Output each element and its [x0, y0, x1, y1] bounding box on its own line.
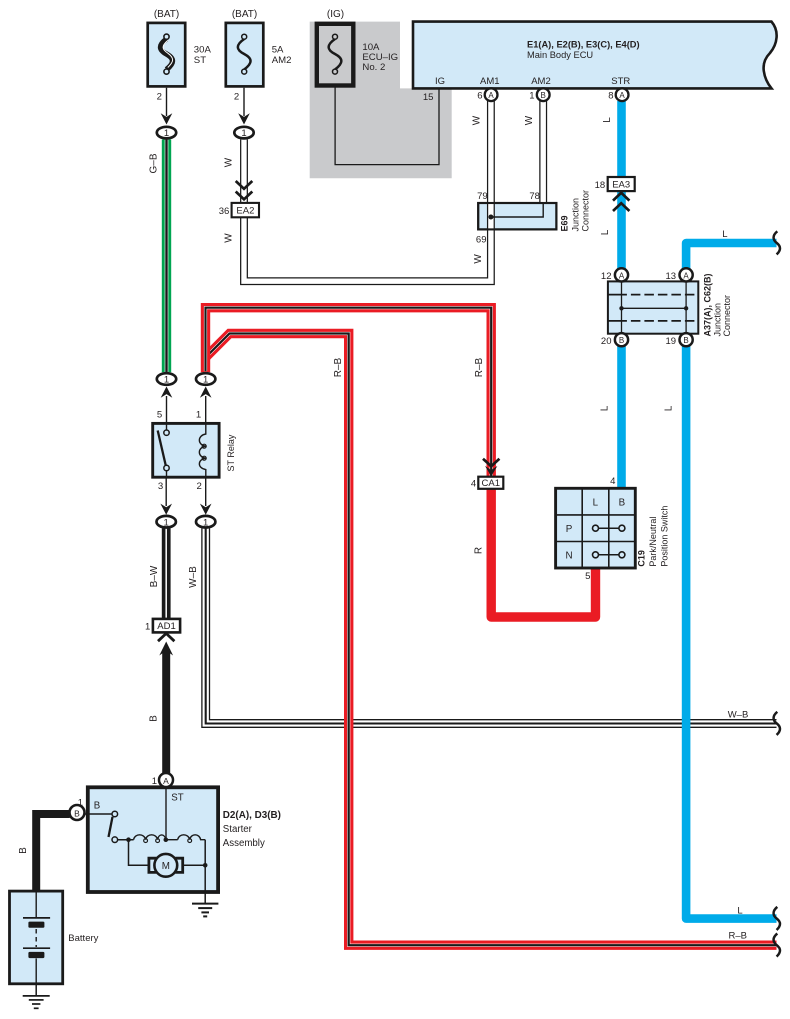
svg-text:A: A [163, 776, 169, 786]
label L A37 to switch [600, 405, 611, 411]
svg-text:EA2: EA2 [236, 206, 254, 217]
svg-text:69: 69 [476, 235, 487, 246]
svg-text:ST: ST [171, 792, 183, 803]
svg-text:AM1: AM1 [480, 76, 500, 87]
svg-text:L: L [664, 405, 675, 411]
svg-text:E1(A), E2(B), E3(C), E4(D): E1(A), E2(B), E3(C), E4(D) [527, 39, 640, 49]
svg-text:A: A [683, 271, 689, 280]
switch cell letters [565, 497, 625, 561]
EA2 connector [219, 181, 259, 217]
ground below battery [23, 984, 50, 1009]
wire R-B branch down page to right edge [206, 334, 777, 946]
svg-text:A: A [619, 271, 625, 280]
wire W from EA2 to E69 and up to ECU AM1 [244, 101, 491, 281]
label W below EA2 [223, 233, 234, 243]
label L bottom right [737, 905, 742, 916]
svg-text:1: 1 [164, 375, 169, 386]
A37/C62 junction connector box [608, 281, 698, 333]
thin line fuse2 to connector [243, 88, 245, 116]
svg-text:W–B: W–B [728, 710, 749, 721]
svg-text:ST Relay: ST Relay [226, 434, 236, 471]
svg-text:1: 1 [529, 91, 534, 102]
label W near E69 bottom [473, 254, 484, 264]
A37 pin 12 A [601, 268, 628, 282]
svg-text:12: 12 [601, 271, 612, 282]
svg-text:15: 15 [423, 92, 434, 103]
svg-text:Main Body ECU: Main Body ECU [527, 50, 593, 60]
label L on STR wire [602, 117, 613, 123]
AD1 connector [145, 619, 180, 641]
connector oval 1 below relay pin2 [196, 477, 215, 528]
svg-text:5A: 5A [272, 44, 284, 55]
label 5A AM2 [272, 44, 292, 65]
svg-text:W: W [223, 157, 234, 167]
E69 junction connector box [478, 203, 556, 229]
svg-text:B–W: B–W [149, 565, 160, 587]
svg-text:4: 4 [471, 478, 476, 489]
svg-text:AM2: AM2 [272, 55, 292, 66]
label W above EA2 [223, 157, 234, 167]
svg-text:19: 19 [666, 336, 677, 347]
svg-text:R–B: R–B [474, 357, 485, 377]
ECU pin 6 A [477, 88, 497, 101]
continuation squiggle W-B [774, 712, 780, 735]
svg-text:G–B: G–B [149, 153, 160, 173]
svg-text:ST: ST [194, 55, 206, 66]
svg-text:1: 1 [152, 776, 157, 787]
svg-text:1: 1 [164, 128, 169, 139]
svg-text:Position Switch: Position Switch [660, 506, 670, 567]
svg-text:A37(A), C62(B): A37(A), C62(B) [703, 273, 713, 336]
label A37(A), C62(B) Junction Connector [703, 273, 733, 336]
svg-text:6: 6 [477, 91, 482, 102]
svg-text:1: 1 [241, 128, 246, 139]
battery box [10, 891, 63, 984]
label M motor [162, 861, 170, 872]
svg-text:B: B [619, 497, 626, 508]
svg-text:W: W [223, 233, 234, 243]
label L pin19 wire [664, 405, 675, 411]
A37 pin 19 B [666, 333, 693, 347]
svg-text:18: 18 [595, 180, 606, 191]
svg-text:IG: IG [435, 76, 445, 87]
svg-text:(BAT): (BAT) [154, 9, 179, 20]
svg-text:5: 5 [157, 410, 162, 421]
svg-text:L: L [602, 117, 613, 123]
A37 pin 13 A [666, 268, 693, 282]
svg-text:Connector: Connector [581, 190, 591, 232]
wire B-W relay pin3 to AD1 [162, 528, 171, 619]
wire L A37 pin19 down to right edge [686, 346, 776, 918]
wire R CA1 to park/neutral switch pin 5 [491, 489, 595, 617]
label 5 switch pin [585, 571, 590, 582]
svg-text:R–B: R–B [333, 357, 344, 377]
wire R-B main relay pin1 to CA1 [206, 308, 492, 477]
wire L right edge to A37 pin 13 [686, 243, 776, 269]
svg-text:Connector: Connector [722, 295, 732, 337]
connector oval 1 above relay pin5 [157, 373, 176, 423]
svg-text:13: 13 [666, 271, 677, 282]
svg-text:Junction: Junction [713, 303, 723, 337]
svg-text:B: B [619, 336, 624, 345]
svg-text:3: 3 [158, 481, 163, 492]
label (BAT) fuse2 [232, 9, 257, 20]
svg-text:L: L [600, 229, 611, 235]
label 69 [476, 235, 487, 246]
label C19 Park/Neutral Position Switch [637, 506, 670, 567]
ECU title [527, 39, 640, 59]
svg-text:(IG): (IG) [327, 9, 344, 20]
label R below CA1 [474, 547, 485, 554]
connector oval 1 below fuse 30A [157, 113, 176, 139]
label L between EA3 and A37 [600, 229, 611, 235]
svg-text:8: 8 [608, 91, 613, 102]
svg-text:78: 78 [529, 191, 540, 202]
gray IG region [310, 22, 452, 179]
svg-text:M: M [162, 861, 170, 872]
wire W fuse2 down [240, 140, 248, 204]
svg-text:STR: STR [611, 76, 630, 87]
label 30A ST [194, 44, 212, 65]
wire W ECU AM2 to E69 pin 78 [539, 101, 547, 203]
svg-text:2: 2 [197, 481, 202, 492]
svg-text:A: A [619, 91, 625, 100]
svg-text:1: 1 [203, 375, 208, 386]
continuation squiggle blue top [774, 231, 780, 254]
label W on AM1 wire [472, 115, 483, 125]
label (BAT) fuse1 [154, 9, 179, 20]
svg-text:R–B: R–B [728, 931, 746, 942]
wire W-B from relay pin2 to right edge [206, 527, 777, 723]
svg-text:1: 1 [145, 622, 150, 633]
label 2 fuse2 [234, 92, 239, 103]
label E69 Junction Connector [560, 190, 591, 232]
svg-text:D2(A), D3(B): D2(A), D3(B) [223, 810, 281, 821]
svg-text:1: 1 [203, 517, 208, 528]
label G-B [149, 153, 160, 173]
label D2(A), D3(B) Starter Assembly [223, 810, 281, 849]
svg-text:1: 1 [196, 410, 201, 421]
svg-text:L: L [737, 905, 742, 916]
ECU pin 1 B [529, 88, 549, 101]
svg-text:L: L [722, 229, 727, 240]
svg-text:Assembly: Assembly [223, 838, 265, 849]
label 79 [477, 191, 488, 202]
fuse 30A ST [148, 23, 186, 87]
svg-text:P: P [566, 524, 573, 535]
svg-text:36: 36 [219, 206, 230, 217]
label B on battery wire [18, 847, 29, 854]
svg-text:No. 2: No. 2 [362, 62, 385, 73]
label Battery [68, 933, 98, 944]
svg-text:W: W [524, 115, 535, 125]
svg-text:CA1: CA1 [482, 478, 500, 489]
svg-text:W: W [473, 254, 484, 264]
park/neutral position switch box [556, 488, 636, 568]
svg-text:N: N [565, 551, 572, 562]
fuse 5A AM2 [226, 23, 263, 87]
svg-text:B: B [18, 847, 29, 854]
svg-text:5: 5 [585, 571, 590, 582]
starter pin 1 A [152, 773, 173, 787]
svg-text:L: L [593, 497, 599, 508]
EA3 connector [595, 177, 635, 211]
label B starter internal [94, 800, 100, 811]
label R-B on CA1 wire [474, 357, 485, 377]
label 78 [529, 191, 540, 202]
svg-text:R: R [474, 547, 485, 554]
A37 pin 20 B [601, 333, 628, 347]
wire G-B green fuse1 to relay [162, 140, 171, 373]
svg-text:1: 1 [164, 517, 169, 528]
label W on AM2 wire [524, 115, 535, 125]
svg-text:W–B: W–B [188, 566, 199, 588]
connector oval 1 below relay pin3 [157, 477, 176, 528]
ECU pin 8 A [608, 88, 628, 101]
svg-text:AM2: AM2 [531, 76, 551, 87]
svg-text:4: 4 [610, 476, 616, 487]
svg-text:2: 2 [234, 92, 239, 103]
svg-text:20: 20 [601, 336, 612, 347]
svg-text:2: 2 [157, 92, 162, 103]
continuation squiggle R-B bottom [774, 934, 780, 957]
label W-B right [728, 710, 749, 721]
wire B AD1 to starter [159, 642, 173, 774]
Main Body ECU box [413, 22, 777, 89]
svg-text:1: 1 [78, 798, 83, 809]
svg-text:Park/Neutral: Park/Neutral [648, 517, 658, 567]
CA1 connector [471, 459, 503, 490]
label W-B vertical [188, 566, 199, 588]
svg-text:Starter: Starter [223, 824, 253, 835]
svg-text:30A: 30A [194, 44, 212, 55]
svg-text:AD1: AD1 [157, 621, 175, 632]
label ST starter internal [171, 792, 183, 803]
svg-text:B: B [149, 715, 160, 722]
label R-B bottom right [728, 931, 746, 942]
label ST Relay [226, 434, 236, 471]
svg-text:(BAT): (BAT) [232, 9, 257, 20]
svg-text:B: B [541, 91, 546, 100]
label 10A ECU-IG No.2 [362, 42, 398, 73]
svg-text:L: L [600, 405, 611, 411]
svg-text:B: B [74, 808, 80, 818]
svg-text:W: W [472, 115, 483, 125]
starter assembly box [85, 787, 219, 892]
wire IG fuse to ECU pin 15 [335, 72, 439, 165]
svg-text:EA3: EA3 [612, 180, 630, 191]
ground below starter [192, 892, 218, 916]
label 15 ECU IG pin [423, 92, 434, 103]
relay pin numbers [157, 410, 202, 492]
ECU pin names [435, 76, 630, 87]
E69 border redraw + internal links [478, 203, 556, 229]
svg-text:B: B [683, 336, 688, 345]
label B-W [149, 565, 160, 587]
label R-B on long wire [333, 357, 344, 377]
continuation squiggle L bottom [774, 907, 780, 930]
svg-text:A: A [488, 91, 494, 100]
label 2 fuse1 [157, 92, 162, 103]
wire L A37 pin20 to switch pin 4 [617, 346, 626, 490]
label 4 switch pin [610, 476, 616, 487]
wire L ECU STR to A37 pin 12 [617, 101, 626, 269]
svg-text:E69: E69 [560, 215, 570, 231]
svg-text:C19: C19 [637, 550, 647, 567]
wire B battery to starter B pin [36, 814, 70, 892]
fuse 10A ECU-IG No.2 [317, 24, 354, 86]
connector oval 1 below fuse 5A [234, 113, 253, 139]
thin line fuse1 to connector [166, 88, 168, 116]
svg-text:Junction: Junction [571, 198, 581, 232]
label L top right [722, 229, 727, 240]
ST relay box [153, 423, 219, 477]
svg-text:B: B [94, 800, 100, 811]
svg-text:Battery: Battery [68, 933, 98, 944]
connector oval 1 above relay pin1 [196, 373, 215, 423]
label (IG) [327, 9, 344, 20]
starter pin 1 B [70, 798, 85, 820]
label B on AD1-starter wire [149, 715, 160, 722]
svg-text:79: 79 [477, 191, 488, 202]
